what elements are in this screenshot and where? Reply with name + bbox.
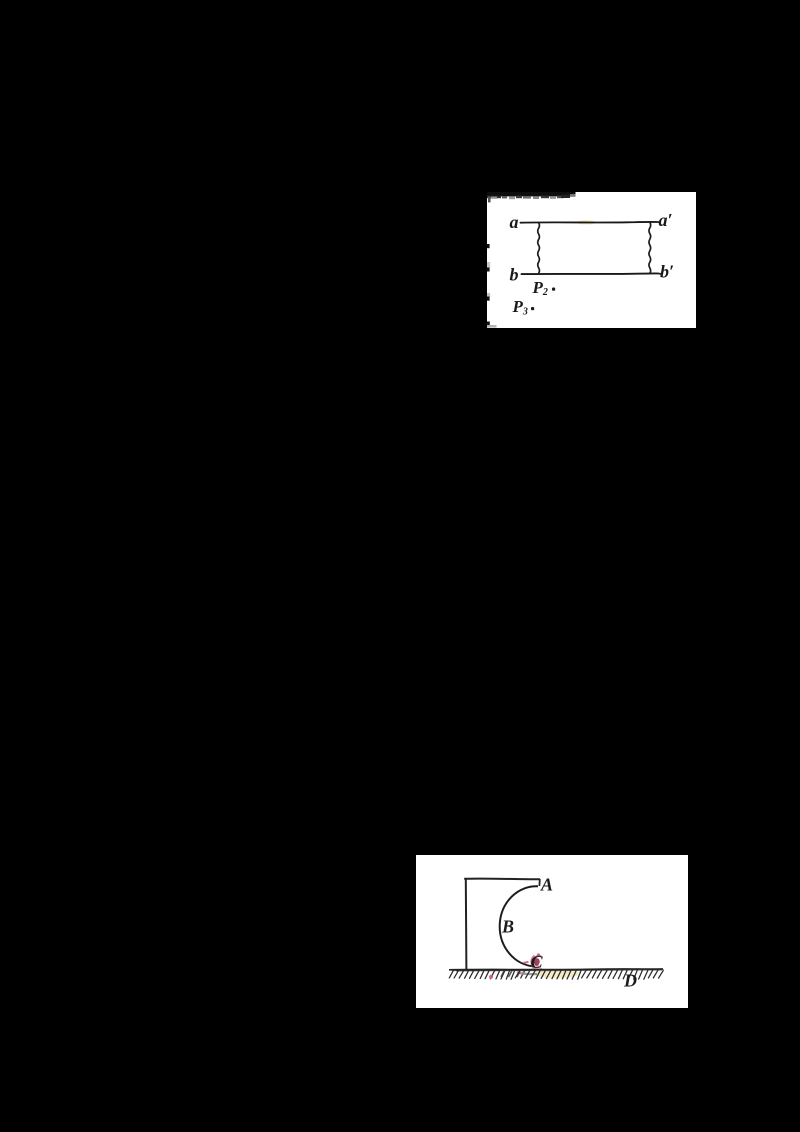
dot beside P2: [552, 288, 555, 291]
left-edge cut character ticks: [487, 244, 497, 328]
svg-text:b′: b′: [660, 262, 674, 282]
dot beside P3: [531, 307, 534, 310]
svg-text:P2: P2: [532, 278, 548, 298]
top horizontal line: [464, 878, 540, 881]
pencil smudge under C: [517, 973, 537, 975]
svg-text:P3: P3: [512, 297, 528, 317]
right spring: [649, 222, 651, 273]
red pencil marks near C: [531, 956, 534, 968]
half-pipe arc: [500, 886, 538, 966]
svg-text:a′: a′: [659, 210, 673, 230]
svg-text:B: B: [501, 916, 514, 936]
ground line: [449, 968, 663, 971]
svg-text:a: a: [510, 212, 519, 232]
wall vertical line: [465, 879, 468, 971]
svg-text:b: b: [510, 264, 519, 284]
top plate line a-a': [521, 221, 660, 224]
pink dots on ground: [489, 975, 493, 979]
tick down at right end of top line: [538, 879, 540, 886]
svg-text:D: D: [623, 971, 637, 991]
yellow highlighter dab on top line: [576, 220, 596, 224]
yellow highlighter on ground: [535, 969, 579, 978]
figure 2: scanned cutout, wall + half-pipe A-B-C on hatched ground with D: [416, 855, 688, 1008]
figure 1: scanned cutout, plates a-a' / b-b' joined by two springs, points P2 P3: [487, 192, 696, 328]
left spring: [538, 223, 540, 274]
svg-text:A: A: [540, 875, 553, 895]
ground hatching: [449, 970, 663, 979]
cut-off text smudge band at top of cutout: [487, 192, 576, 202]
bottom plate line b-b': [522, 272, 661, 275]
